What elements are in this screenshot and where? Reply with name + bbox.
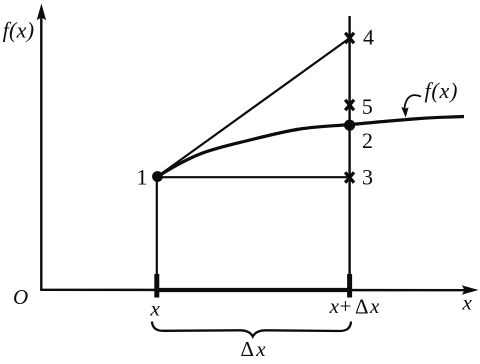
secant line from point 1 to point 4 [158, 38, 351, 177]
vertical wire at x from point 1 down to axis [156, 176, 158, 289]
y-axis [40, 14, 42, 290]
svg-text:+: + [340, 294, 352, 318]
svg-text:Δ: Δ [355, 295, 369, 319]
svg-text:x: x [329, 294, 340, 318]
thick axis segment between x and x+dx [157, 288, 350, 292]
vertical wire at x+dx from top down to axis [348, 16, 350, 289]
x marker point 5 [345, 100, 354, 110]
brace under axis [152, 322, 351, 337]
pointer arrow to curve (for right f(x) label) [404, 95, 421, 109]
tick at x [154, 274, 159, 298]
x marker point 3 [345, 172, 354, 182]
x marker point 4 [345, 33, 354, 43]
svg-text:O: O [13, 285, 28, 309]
tick at x+dx [347, 274, 352, 298]
x-axis arrowhead [462, 285, 479, 295]
svg-text:5: 5 [362, 94, 373, 119]
point 2 dot [344, 120, 355, 131]
svg-text:x: x [255, 337, 266, 361]
svg-text:Δ: Δ [241, 337, 255, 361]
svg-text:x: x [369, 294, 380, 318]
svg-text:f(x): f(x) [3, 17, 35, 42]
svg-text:f(x): f(x) [425, 78, 459, 103]
horizontal line from point 1 to point 3 [158, 176, 350, 178]
svg-text:x: x [150, 297, 161, 321]
svg-text:1: 1 [137, 164, 148, 189]
svg-text:2: 2 [362, 128, 373, 153]
svg-text:x: x [462, 291, 473, 315]
curve f(x) [158, 117, 465, 177]
svg-text:4: 4 [363, 25, 374, 50]
y-axis arrowhead [37, 4, 47, 21]
point 1 dot [152, 171, 163, 182]
x-axis [40, 289, 470, 292]
svg-text:3: 3 [362, 164, 373, 189]
